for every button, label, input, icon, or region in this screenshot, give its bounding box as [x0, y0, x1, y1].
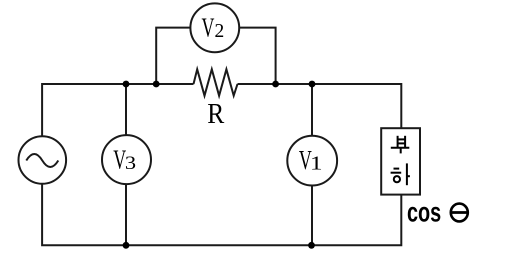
svg-text:3: 3: [125, 151, 136, 173]
svg-text:R: R: [207, 98, 225, 130]
svg-text:V: V: [202, 13, 215, 44]
svg-text:1: 1: [310, 152, 323, 174]
svg-text:2: 2: [215, 21, 225, 42]
svg-text:cos: cos: [407, 197, 441, 228]
